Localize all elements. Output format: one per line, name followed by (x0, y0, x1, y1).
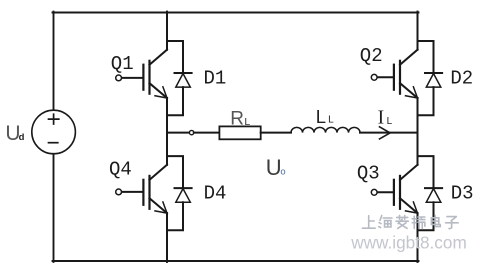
svg-text:R: R (230, 108, 244, 129)
wire left leg middle segment (166, 98, 168, 165)
svg-text:D2: D2 (450, 68, 473, 90)
watermark character dian (431, 215, 440, 226)
wire gate lead Q4 (122, 191, 144, 193)
transistor Q1 emitter lead (150, 83, 168, 98)
transistor Q1 collector lead (150, 50, 168, 65)
wire gate lead Q3 (377, 191, 394, 193)
watermark character zi (446, 217, 459, 229)
watermark character ling (396, 215, 408, 228)
wire diode D2 bottom branch (418, 87, 434, 115)
transistor Q2 emitter arrow (406, 87, 418, 98)
diode D2 cathode bar (425, 72, 442, 74)
voltage source plus sign (49, 114, 59, 124)
svg-text:L: L (244, 116, 250, 128)
svg-text:L: L (387, 116, 393, 127)
transistor Q3 collector lead (400, 165, 418, 180)
diode D4 cathode bar (175, 187, 192, 189)
svg-text:U: U (266, 155, 282, 180)
transistor Q1 gate bar (142, 65, 144, 90)
inductor LL coils (291, 127, 360, 132)
transistor Q2 gate bar (393, 65, 395, 90)
transistor Q3 gate terminal circle (371, 189, 377, 195)
watermark character duan (412, 216, 425, 228)
diode D3 cathode bar (425, 187, 442, 189)
diode D2 triangle (426, 74, 441, 88)
transistor Q2 gate terminal circle (371, 74, 377, 80)
wire right leg middle segment (417, 98, 419, 165)
watermark line 1: Shanghai Lingduan Electronics (362, 215, 458, 228)
svg-text:Q3: Q3 (357, 162, 380, 184)
wire terminal to resistor (194, 132, 220, 134)
transistor Q4 gate terminal circle (116, 189, 122, 195)
wire diode D2 top branch (418, 41, 434, 73)
wire bottom rail (53, 260, 419, 262)
wire gate lead Q2 (377, 76, 394, 78)
transistor Q1 gate terminal circle (116, 75, 122, 81)
wire left rail upper (53, 12, 55, 111)
transistor Q3 body bar (399, 176, 401, 209)
wire diode D1 bottom branch (167, 87, 183, 115)
arrow current IL direction (380, 127, 391, 139)
svg-text:d: d (19, 132, 25, 143)
wire right leg bottom segment (417, 213, 419, 262)
transistor Q4 body bar (148, 176, 150, 209)
transistor Q2 collector lead (400, 50, 418, 65)
transistor Q1 body bar (148, 61, 150, 94)
wire top rail (53, 12, 419, 14)
wire left leg top segment (166, 12, 168, 50)
transistor Q4 emitter lead (150, 198, 168, 213)
diode D3 triangle (426, 189, 441, 203)
svg-text:D3: D3 (451, 182, 474, 204)
diode D4 triangle (176, 189, 191, 203)
wire diode D4 top branch (167, 156, 183, 188)
wire diode D3 top branch (418, 156, 434, 188)
svg-text:D1: D1 (204, 68, 227, 90)
wire diode D3 bottom branch (418, 202, 434, 230)
transistor Q2 emitter lead (400, 83, 418, 98)
watermark character hai (379, 216, 392, 228)
transistor Q3 emitter arrow (406, 202, 418, 213)
diode D1 triangle (176, 74, 191, 88)
wire resistor to inductor (261, 132, 291, 134)
voltage source Ud circle (32, 110, 76, 154)
svg-text:L: L (316, 106, 326, 127)
wire gate lead Q1 (122, 77, 144, 79)
transistor Q1 emitter arrow (155, 87, 167, 98)
svg-text:Q4: Q4 (109, 158, 132, 180)
wire diode D4 bottom branch (167, 202, 183, 230)
transistor Q4 emitter arrow (155, 202, 167, 213)
transistor Q3 gate bar (393, 180, 395, 205)
wire inductor to right leg (360, 132, 418, 134)
svg-text:Q2: Q2 (360, 45, 383, 67)
svg-text:o: o (280, 166, 285, 177)
wire left rail lower (53, 154, 55, 262)
transistor Q4 gate bar (142, 180, 144, 205)
svg-text:L: L (328, 115, 334, 126)
transistor Q2 body bar (399, 61, 401, 94)
svg-text:www.igbt8.com: www.igbt8.com (350, 232, 467, 252)
wire output node to terminal (167, 132, 189, 134)
svg-text:Q1: Q1 (111, 53, 134, 75)
svg-text:I: I (378, 107, 385, 128)
wire diode D1 top branch (167, 41, 183, 73)
voltage source minus sign (49, 142, 58, 144)
node output terminal circle (189, 130, 193, 134)
wire left leg bottom segment (166, 213, 168, 262)
transistor Q3 emitter lead (400, 198, 418, 213)
svg-text:D4: D4 (204, 183, 227, 205)
wire right leg top segment (417, 12, 419, 50)
transistor Q4 collector lead (150, 165, 168, 180)
resistor RL body (219, 126, 260, 139)
diode D1 cathode bar (175, 72, 192, 74)
watermark character shang (362, 216, 375, 229)
